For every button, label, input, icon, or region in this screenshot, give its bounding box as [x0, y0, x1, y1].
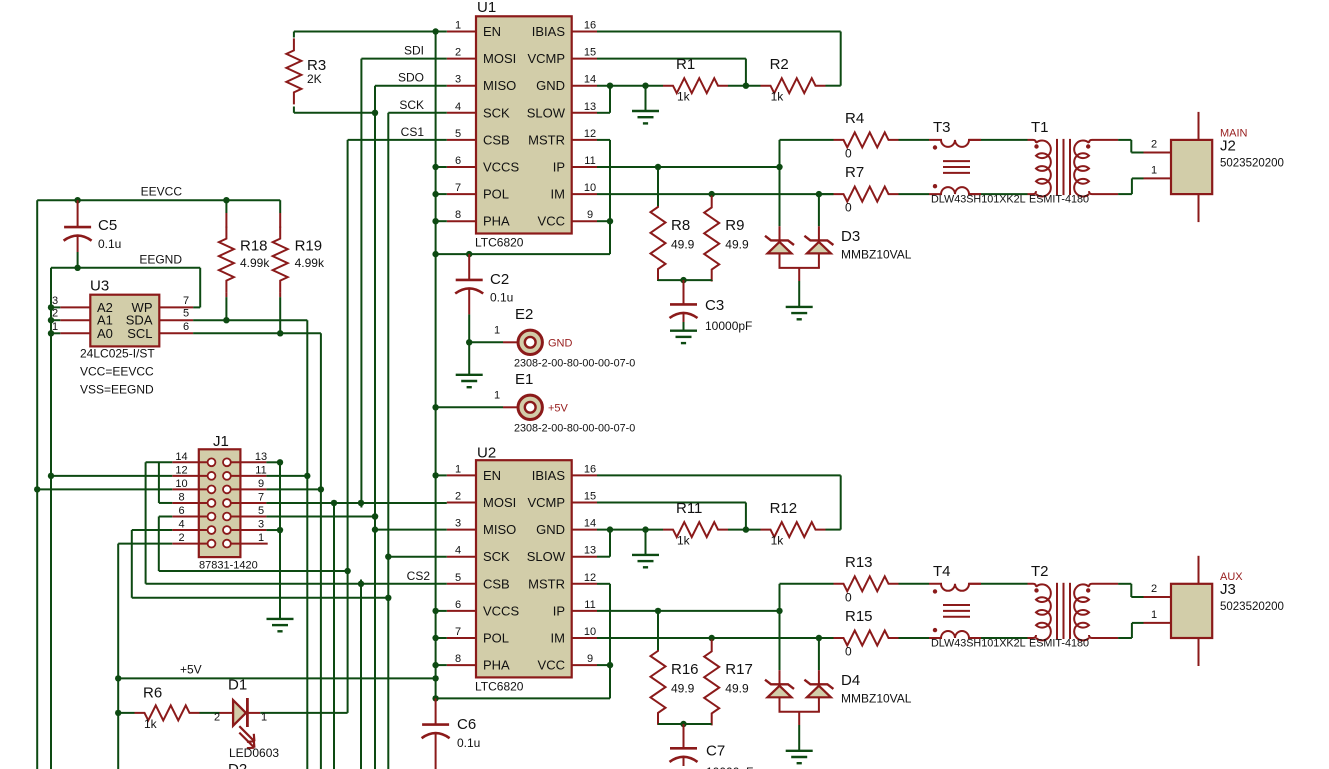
svg-text:8: 8	[178, 491, 184, 503]
svg-text:3: 3	[52, 295, 58, 307]
svg-text:T1: T1	[1031, 119, 1049, 136]
svg-text:VCCS: VCCS	[483, 160, 519, 175]
svg-text:16: 16	[584, 20, 596, 32]
svg-text:C6: C6	[457, 716, 476, 733]
svg-text:CS2: CS2	[407, 569, 431, 583]
svg-text:2308-2-00-80-00-00-07-0: 2308-2-00-80-00-00-07-0	[514, 358, 635, 370]
svg-text:EEVCC: EEVCC	[141, 185, 183, 199]
svg-text:3: 3	[455, 518, 461, 530]
svg-text:49.9: 49.9	[725, 238, 749, 252]
svg-text:SLOW: SLOW	[527, 549, 566, 564]
svg-text:5: 5	[258, 505, 264, 517]
svg-text:1k: 1k	[771, 90, 785, 104]
svg-text:IP: IP	[553, 603, 565, 618]
svg-text:5: 5	[455, 572, 461, 584]
svg-text:IBIAS: IBIAS	[532, 24, 566, 39]
svg-text:VCMP: VCMP	[527, 495, 565, 510]
svg-text:3: 3	[258, 519, 264, 531]
svg-text:VCC=EEVCC: VCC=EEVCC	[80, 365, 154, 379]
svg-text:6: 6	[183, 321, 189, 333]
svg-text:MISO: MISO	[483, 522, 516, 537]
svg-text:R7: R7	[845, 164, 864, 181]
svg-text:1k: 1k	[771, 534, 785, 548]
svg-text:14: 14	[584, 518, 596, 530]
svg-text:R15: R15	[845, 608, 873, 625]
svg-text:15: 15	[584, 491, 596, 503]
svg-text:13: 13	[255, 451, 267, 463]
svg-text:MSTR: MSTR	[528, 132, 565, 147]
svg-text:4.99k: 4.99k	[240, 256, 270, 270]
svg-text:2: 2	[455, 47, 461, 59]
svg-text:1k: 1k	[677, 90, 691, 104]
svg-text:MMBZ10VAL: MMBZ10VAL	[841, 691, 912, 705]
svg-text:2: 2	[1151, 139, 1157, 151]
svg-text:DLW43SH101XK2L: DLW43SH101XK2L	[931, 637, 1026, 649]
svg-text:4: 4	[455, 101, 461, 113]
svg-text:2: 2	[455, 491, 461, 503]
svg-text:R1: R1	[676, 56, 695, 73]
svg-text:R17: R17	[725, 661, 753, 678]
svg-text:MOSI: MOSI	[483, 495, 516, 510]
svg-text:IBIAS: IBIAS	[532, 468, 566, 483]
svg-text:R6: R6	[143, 685, 162, 702]
svg-text:D3: D3	[841, 228, 860, 245]
svg-text:1k: 1k	[677, 534, 691, 548]
svg-text:1: 1	[261, 712, 267, 724]
svg-text:R4: R4	[845, 110, 864, 127]
svg-text:7: 7	[455, 182, 461, 194]
svg-text:VSS=EEGND: VSS=EEGND	[80, 383, 154, 397]
svg-text:SDI: SDI	[404, 44, 424, 58]
svg-text:CSB: CSB	[483, 132, 510, 147]
svg-text:LTC6820: LTC6820	[475, 236, 524, 250]
svg-text:2: 2	[1151, 583, 1157, 595]
svg-text:R8: R8	[671, 217, 690, 234]
svg-text:R16: R16	[671, 661, 699, 678]
svg-text:9: 9	[587, 653, 593, 665]
svg-text:SCK: SCK	[399, 98, 424, 112]
svg-text:R11: R11	[676, 500, 702, 517]
svg-text:EEGND: EEGND	[139, 252, 182, 266]
svg-text:7: 7	[455, 626, 461, 638]
svg-text:2: 2	[52, 308, 58, 320]
svg-text:GND: GND	[536, 78, 565, 93]
svg-text:10: 10	[175, 478, 187, 490]
svg-text:13: 13	[584, 101, 596, 113]
svg-text:1: 1	[1151, 609, 1157, 621]
svg-text:9: 9	[258, 478, 264, 490]
svg-text:POL: POL	[483, 187, 509, 202]
svg-text:10: 10	[584, 626, 596, 638]
svg-text:MSTR: MSTR	[528, 576, 565, 591]
svg-text:16: 16	[584, 463, 596, 475]
svg-text:2: 2	[214, 712, 220, 724]
svg-text:MISO: MISO	[483, 78, 516, 93]
svg-text:1: 1	[455, 463, 461, 475]
svg-text:D1: D1	[228, 677, 247, 694]
svg-text:SLOW: SLOW	[527, 105, 566, 120]
svg-text:11: 11	[584, 599, 595, 611]
svg-text:IM: IM	[551, 187, 565, 202]
svg-text:R18: R18	[240, 238, 268, 255]
svg-text:0.1u: 0.1u	[457, 736, 480, 750]
svg-text:24LC025-I/ST: 24LC025-I/ST	[80, 347, 155, 361]
svg-text:49.9: 49.9	[725, 681, 749, 695]
svg-text:PHA: PHA	[483, 214, 510, 229]
svg-text:T2: T2	[1031, 563, 1049, 580]
svg-text:E1: E1	[515, 371, 533, 388]
svg-text:6: 6	[455, 599, 461, 611]
svg-text:8: 8	[455, 653, 461, 665]
svg-text:1: 1	[494, 324, 500, 336]
svg-text:1: 1	[52, 321, 58, 333]
svg-text:E2: E2	[515, 306, 533, 323]
svg-text:GND: GND	[536, 522, 565, 537]
svg-text:87831-1420: 87831-1420	[199, 560, 258, 572]
svg-text:R9: R9	[725, 217, 744, 234]
svg-text:1: 1	[494, 389, 500, 401]
svg-text:SCL: SCL	[127, 326, 152, 341]
svg-text:C5: C5	[98, 217, 117, 234]
svg-text:R13: R13	[845, 554, 873, 571]
svg-text:PHA: PHA	[483, 658, 510, 673]
svg-text:14: 14	[175, 451, 187, 463]
svg-text:10000pF: 10000pF	[706, 765, 753, 769]
svg-text:D2: D2	[228, 761, 247, 769]
svg-text:5: 5	[183, 308, 189, 320]
svg-text:VCMP: VCMP	[527, 51, 565, 66]
svg-text:0: 0	[845, 201, 852, 215]
svg-text:ESMIT-4180: ESMIT-4180	[1029, 194, 1089, 206]
svg-text:0: 0	[845, 590, 852, 604]
svg-text:IP: IP	[553, 160, 565, 175]
svg-text:0: 0	[845, 644, 852, 658]
svg-text:1k: 1k	[144, 717, 158, 731]
svg-text:EN: EN	[483, 24, 501, 39]
svg-text:7: 7	[258, 491, 264, 503]
svg-text:11: 11	[584, 155, 595, 167]
svg-text:ESMIT-4180: ESMIT-4180	[1029, 637, 1089, 649]
svg-text:SDO: SDO	[398, 71, 424, 85]
svg-text:J3: J3	[1220, 581, 1236, 598]
svg-text:MMBZ10VAL: MMBZ10VAL	[841, 248, 912, 262]
svg-text:2308-2-00-80-00-00-07-0: 2308-2-00-80-00-00-07-0	[514, 423, 635, 435]
svg-text:A0: A0	[97, 326, 113, 341]
svg-text:13: 13	[584, 545, 596, 557]
svg-text:5023520200: 5023520200	[1220, 601, 1284, 613]
svg-text:14: 14	[584, 74, 596, 86]
svg-text:49.9: 49.9	[671, 238, 695, 252]
svg-text:10: 10	[584, 182, 596, 194]
svg-text:GND: GND	[548, 338, 573, 350]
svg-text:R12: R12	[770, 500, 798, 517]
svg-text:0.1u: 0.1u	[490, 291, 513, 305]
svg-text:8: 8	[455, 209, 461, 221]
svg-text:10000pF: 10000pF	[705, 319, 752, 333]
svg-text:U2: U2	[477, 444, 496, 461]
svg-text:C3: C3	[705, 297, 724, 314]
svg-text:VCCS: VCCS	[483, 603, 519, 618]
svg-text:5: 5	[455, 128, 461, 140]
svg-text:12: 12	[584, 572, 596, 584]
svg-text:T3: T3	[933, 119, 951, 136]
svg-text:U1: U1	[477, 0, 496, 16]
svg-text:6: 6	[178, 505, 184, 517]
svg-text:+5V: +5V	[180, 662, 202, 676]
svg-text:POL: POL	[483, 631, 509, 646]
svg-text:11: 11	[255, 464, 266, 476]
svg-text:U3: U3	[90, 278, 109, 295]
svg-text:SCK: SCK	[483, 105, 510, 120]
svg-text:1: 1	[1151, 164, 1157, 176]
svg-text:C2: C2	[490, 271, 509, 288]
svg-text:R2: R2	[770, 56, 789, 73]
svg-text:IM: IM	[551, 631, 565, 646]
svg-text:R19: R19	[295, 238, 323, 255]
svg-text:4.99k: 4.99k	[295, 256, 325, 270]
svg-text:4: 4	[455, 545, 461, 557]
svg-text:15: 15	[584, 47, 596, 59]
svg-text:0.1u: 0.1u	[98, 237, 121, 251]
svg-text:12: 12	[584, 128, 596, 140]
svg-text:5023520200: 5023520200	[1220, 157, 1284, 169]
svg-text:4: 4	[178, 519, 184, 531]
svg-text:3: 3	[455, 74, 461, 86]
svg-text:MOSI: MOSI	[483, 51, 516, 66]
svg-text:T4: T4	[933, 563, 951, 580]
svg-text:J2: J2	[1220, 137, 1236, 154]
svg-text:12: 12	[175, 464, 187, 476]
svg-text:SCK: SCK	[483, 549, 510, 564]
svg-text:2K: 2K	[307, 72, 322, 86]
svg-text:1: 1	[455, 20, 461, 32]
svg-text:LED0603: LED0603	[229, 746, 279, 760]
svg-text:2: 2	[178, 532, 184, 544]
svg-text:DLW43SH101XK2L: DLW43SH101XK2L	[931, 194, 1026, 206]
svg-text:C7: C7	[706, 743, 725, 760]
svg-text:CS1: CS1	[401, 125, 425, 139]
svg-text:9: 9	[587, 209, 593, 221]
svg-text:7: 7	[183, 295, 189, 307]
svg-text:1: 1	[258, 532, 264, 544]
svg-text:LTC6820: LTC6820	[475, 679, 524, 693]
svg-text:6: 6	[455, 155, 461, 167]
svg-text:VCC: VCC	[538, 214, 565, 229]
svg-text:VCC: VCC	[538, 658, 565, 673]
svg-text:J1: J1	[213, 433, 229, 450]
svg-text:D4: D4	[841, 672, 860, 689]
svg-text:CSB: CSB	[483, 576, 510, 591]
svg-text:+5V: +5V	[548, 403, 569, 415]
svg-text:0: 0	[845, 146, 852, 160]
svg-text:EN: EN	[483, 468, 501, 483]
svg-text:49.9: 49.9	[671, 681, 695, 695]
